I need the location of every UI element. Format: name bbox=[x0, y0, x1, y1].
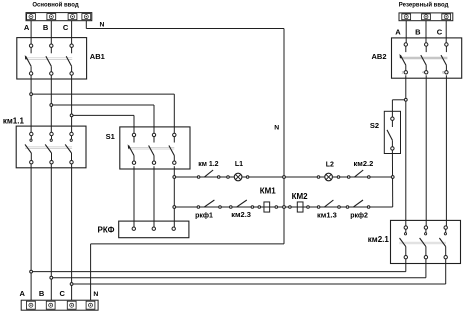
svg-text:Основной ввод: Основной ввод bbox=[32, 2, 79, 9]
svg-text:L2: L2 bbox=[326, 162, 334, 169]
svg-text:A: A bbox=[395, 28, 401, 37]
svg-text:C: C bbox=[63, 23, 69, 32]
svg-text:A: A bbox=[24, 23, 30, 32]
svg-text:4: 4 bbox=[422, 71, 424, 75]
svg-text:км2.2: км2.2 bbox=[354, 159, 374, 168]
svg-text:км2.3: км2.3 bbox=[231, 210, 251, 219]
svg-text:км 1.2: км 1.2 bbox=[198, 161, 218, 168]
svg-text:C: C bbox=[437, 28, 443, 37]
svg-text:км1.3: км1.3 bbox=[317, 211, 337, 220]
svg-text:A: A bbox=[19, 289, 25, 298]
svg-text:N: N bbox=[274, 124, 279, 131]
svg-text:B: B bbox=[43, 23, 49, 32]
svg-text:КМ1: КМ1 bbox=[260, 186, 277, 195]
svg-text:км1.1: км1.1 bbox=[3, 116, 25, 125]
svg-text:C: C bbox=[59, 289, 65, 298]
svg-text:N: N bbox=[93, 291, 98, 298]
svg-text:S1: S1 bbox=[106, 132, 115, 141]
svg-text:B: B bbox=[415, 28, 421, 37]
svg-text:АВ1: АВ1 bbox=[90, 52, 105, 61]
svg-text:2: 2 bbox=[402, 71, 404, 75]
svg-text:B: B bbox=[39, 289, 45, 298]
svg-text:6: 6 bbox=[442, 71, 444, 75]
svg-text:РКФ: РКФ bbox=[98, 225, 115, 234]
svg-text:ркф2: ркф2 bbox=[350, 213, 368, 220]
svg-text:км2.1: км2.1 bbox=[368, 235, 390, 244]
svg-text:АВ2: АВ2 bbox=[371, 52, 386, 61]
svg-text:ркф1: ркф1 bbox=[195, 213, 213, 220]
svg-text:L1: L1 bbox=[235, 161, 243, 168]
svg-text:S2: S2 bbox=[370, 121, 379, 130]
svg-text:КМ2: КМ2 bbox=[292, 192, 309, 201]
svg-text:Резервный ввод: Резервный ввод bbox=[399, 2, 449, 9]
svg-text:N: N bbox=[100, 21, 105, 28]
